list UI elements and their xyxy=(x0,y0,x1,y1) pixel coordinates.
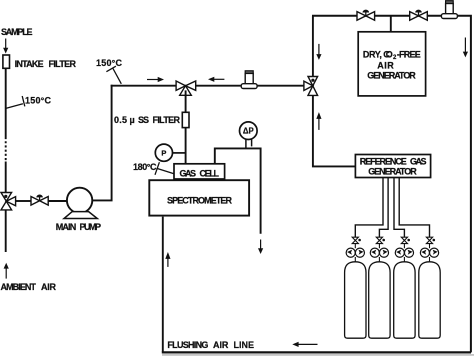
svg-text:REFERENCE: REFERENCE xyxy=(360,156,407,166)
svg-text:AIR: AIR xyxy=(213,340,229,350)
svg-text:INTAKE: INTAKE xyxy=(15,59,44,69)
svg-text:FLUSHING: FLUSHING xyxy=(167,340,208,350)
svg-text:P: P xyxy=(161,148,166,157)
svg-text:GAS: GAS xyxy=(410,156,427,166)
svg-text:180°C: 180°C xyxy=(133,162,157,172)
svg-text:FILTER: FILTER xyxy=(153,115,181,125)
svg-text:CELL: CELL xyxy=(200,169,220,179)
svg-text:AMBIENT: AMBIENT xyxy=(1,282,37,292)
svg-text:ΔP: ΔP xyxy=(243,127,254,136)
svg-text:CO: CO xyxy=(383,50,393,60)
svg-text:GAS: GAS xyxy=(180,169,197,179)
svg-text:AIR: AIR xyxy=(41,282,57,292)
svg-text:MAIN: MAIN xyxy=(56,222,76,232)
svg-text:-FREE: -FREE xyxy=(397,50,421,60)
svg-text:DRY,: DRY, xyxy=(363,50,382,60)
svg-text:FILTER: FILTER xyxy=(49,59,77,69)
svg-text:AIR: AIR xyxy=(377,61,394,71)
svg-text:GENERATOR: GENERATOR xyxy=(368,167,417,177)
svg-text:PUMP: PUMP xyxy=(80,222,102,232)
svg-text:150°C: 150°C xyxy=(96,58,123,68)
svg-text:µ: µ xyxy=(130,115,135,125)
svg-text:GENERATOR: GENERATOR xyxy=(367,71,416,81)
svg-text:150°C: 150°C xyxy=(25,96,52,106)
svg-text:SAMPLE: SAMPLE xyxy=(1,27,33,37)
svg-text:LINE: LINE xyxy=(234,340,255,350)
svg-text:SS: SS xyxy=(138,115,149,125)
svg-text:SPECTROMETER: SPECTROMETER xyxy=(167,195,233,205)
svg-text:0.5: 0.5 xyxy=(114,115,127,125)
